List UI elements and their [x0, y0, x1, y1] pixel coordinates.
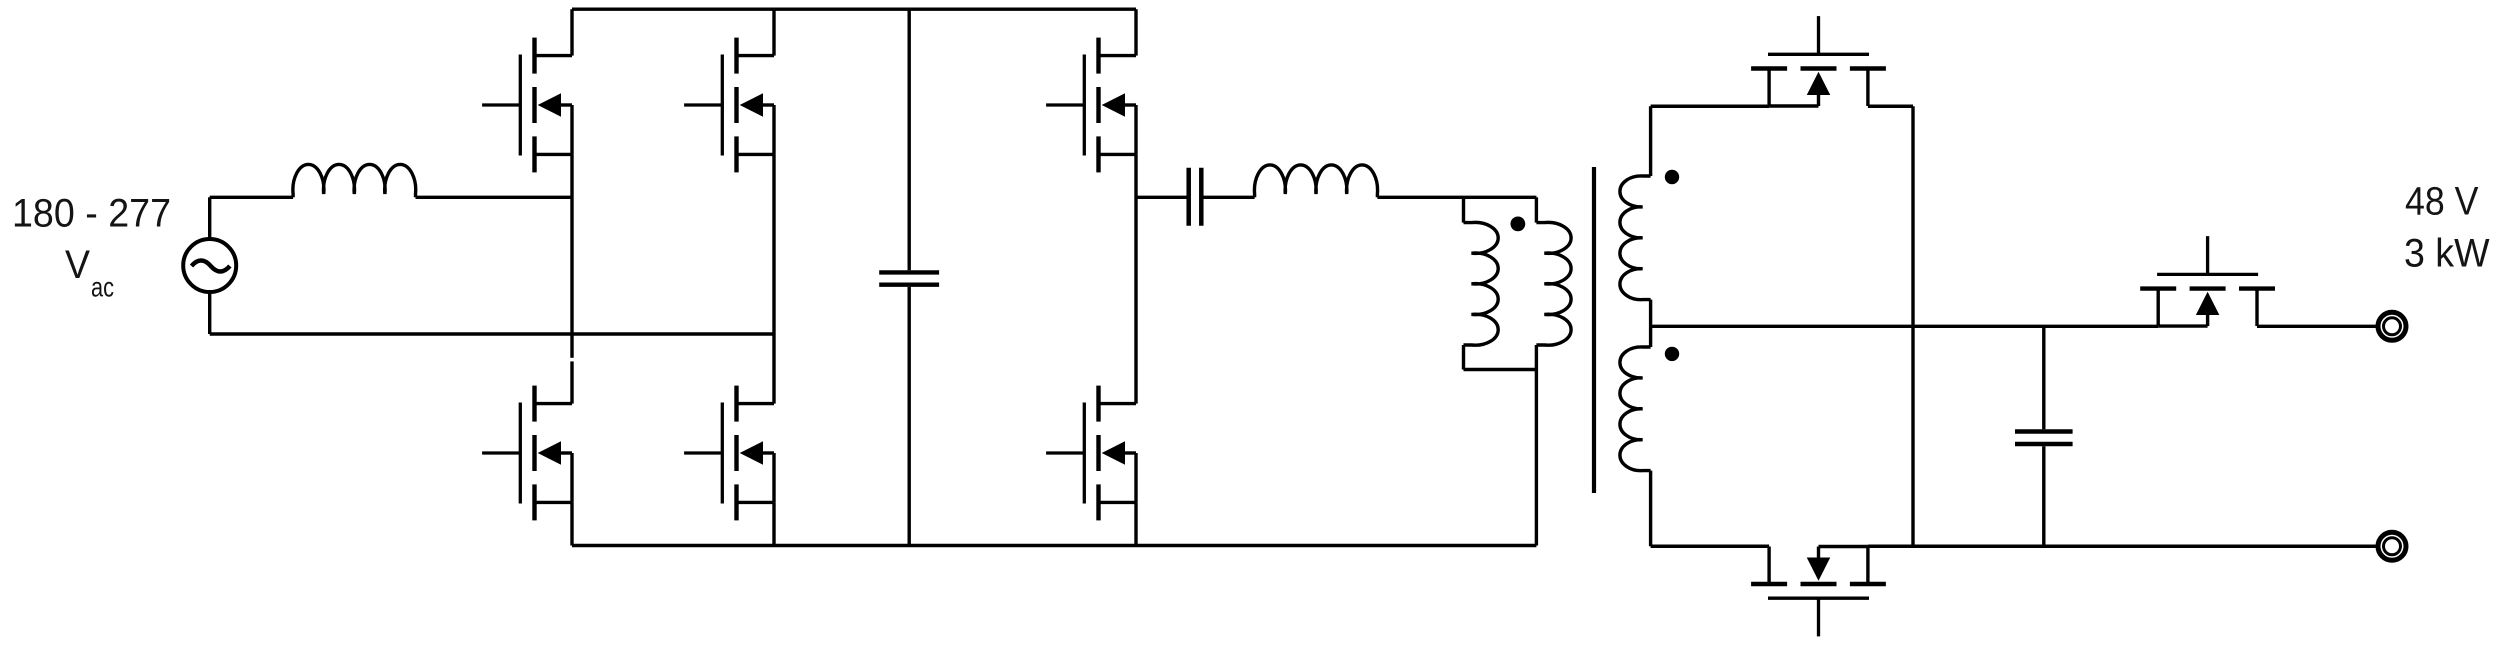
transformer T1 secondary bottom winding	[1620, 347, 1651, 546]
wire source bottom lead	[208, 292, 211, 334]
svg-text:48 V: 48 V	[2405, 180, 2479, 224]
transformer T1 secondary top winding	[1620, 106, 1651, 347]
transistor Q5 (LLC leg high side)	[1046, 38, 1136, 173]
wire secondary bottom to SR2	[1651, 545, 1770, 548]
wire source top lead	[208, 197, 211, 238]
wire leg3 source to bottom rail	[1134, 502, 1137, 545]
transistor Q2 (leg1 low side)	[482, 386, 572, 521]
wire leg3 drain stub	[1134, 9, 1137, 55]
node secondary bottom polarity dot	[1665, 347, 1679, 361]
svg-text:180 - 277: 180 - 277	[12, 191, 171, 235]
inductor L2 (resonant)	[1254, 165, 1377, 197]
wire bottom DC rail	[572, 544, 1536, 547]
wire break artifact leg1	[570, 358, 575, 362]
wire center tap to ORing fet	[1651, 325, 2159, 328]
terminal output minus	[2378, 532, 2406, 560]
wire top DC rail	[572, 7, 1136, 10]
node primary polarity dot	[1511, 217, 1526, 232]
transistor Q9 (ORing fet)	[2140, 236, 2275, 326]
transformer T1 primary right winding	[1536, 197, 1571, 545]
wire secondary top to SR1	[1651, 105, 1770, 108]
wire resonant cap to inductor	[1203, 196, 1254, 199]
node secondary top polarity dot	[1665, 170, 1679, 184]
transistor Q1 (leg1 high side)	[482, 38, 572, 173]
inductor L1 (PFC boost)	[293, 164, 416, 197]
wire inductor to transformer primary	[1377, 196, 1536, 199]
label input voltage 180 - 277 Vac	[12, 191, 171, 302]
capacitor C3 (output)	[2015, 326, 2073, 546]
capacitor C2 (resonant)	[1189, 168, 1202, 226]
transistor Q7 (sync rectifier top)	[1751, 16, 1886, 106]
transistor Q6 (LLC leg low side)	[1046, 386, 1136, 521]
transistor Q4 (leg2 low side)	[684, 386, 774, 521]
wire leg3 midpoint to resonant capacitor	[1136, 196, 1187, 199]
wire leg2 drain stub	[772, 9, 775, 55]
wire inductor to leg1 midpoint	[416, 196, 573, 199]
terminal output plus	[2378, 312, 2406, 340]
transistor Q3 (leg2 high side)	[684, 38, 774, 173]
wire leg3 midpoint bus	[1134, 154, 1137, 403]
wire ORing fet to output plus terminal	[2257, 325, 2378, 328]
transformer T1 primary left winding	[1464, 197, 1499, 369]
label output 48 V 3 kW	[2404, 180, 2490, 276]
wire leg1 source to bottom rail	[570, 502, 573, 545]
svg-text:3 kW: 3 kW	[2404, 232, 2490, 276]
wire leg2 source to bottom rail	[772, 502, 775, 545]
wire rectifier bus	[1911, 106, 1914, 546]
wire leg1 drain stub	[570, 9, 573, 55]
svg-text:V: V	[65, 243, 90, 287]
wire AC top to boost inductor	[210, 196, 293, 199]
wire AC bottom to leg2 midpoint	[210, 332, 774, 335]
wire leg2 midpoint bus	[772, 154, 775, 403]
wire leg1 midpoint bus	[570, 154, 573, 403]
svg-text:ac: ac	[91, 272, 114, 303]
capacitor C1 (DC link)	[879, 9, 939, 545]
wire SR1 drain to bus	[1868, 105, 1913, 108]
AC source V1	[183, 239, 236, 292]
transformer T1 core	[1592, 167, 1596, 493]
wire primary bottom	[1464, 368, 1537, 371]
transistor Q8 (sync rectifier bottom)	[1751, 547, 1886, 637]
wire SR2 side to output minus terminal	[1868, 545, 2378, 548]
